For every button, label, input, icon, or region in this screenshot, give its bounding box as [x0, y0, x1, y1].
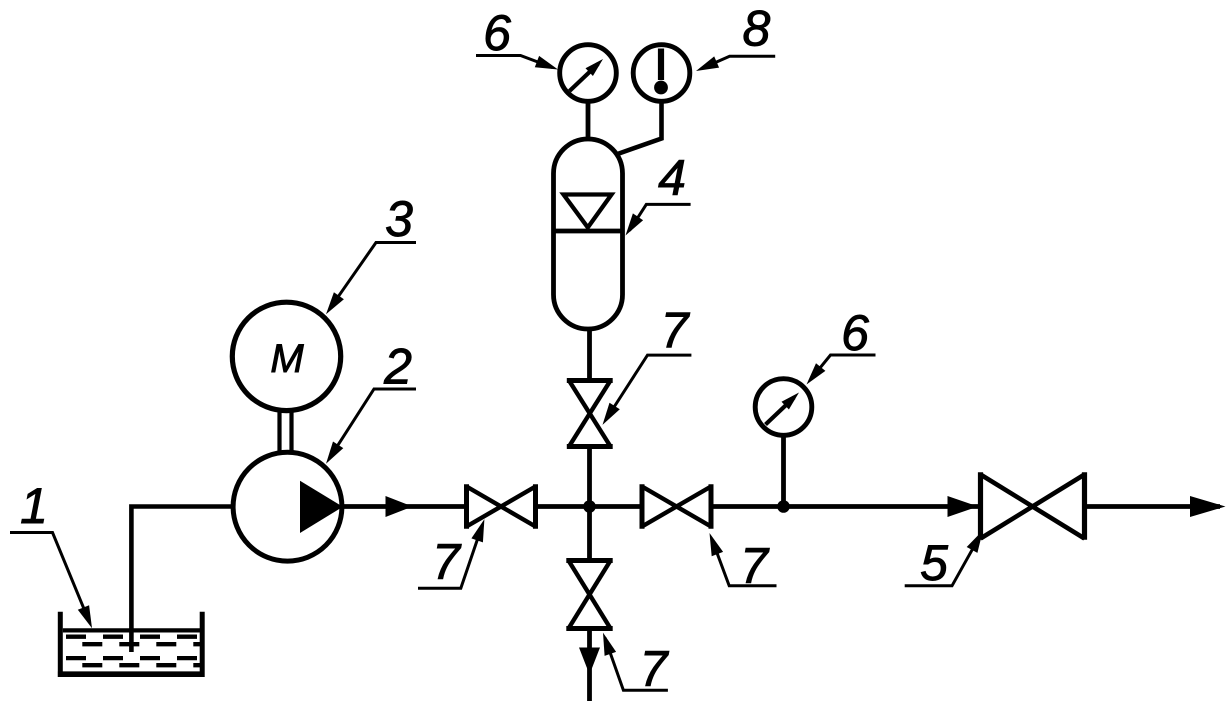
thermometer stem (to accumulator shoulder)	[618, 103, 662, 154]
drain pipe junction to valve 7d	[587, 507, 592, 563]
label 7c	[603, 303, 692, 425]
label 7d	[603, 633, 670, 697]
junction node (cross)	[583, 500, 596, 513]
accumulator 4 (capsule with gas charge)	[554, 139, 623, 329]
valve 7d (vertical bowtie drain)	[566, 561, 612, 629]
pipe valve 7b to valve 5 through gauge tap	[711, 504, 980, 509]
label 6 right	[807, 305, 876, 385]
pressure gauge 6 right (circle with diagonal arrow)	[755, 379, 812, 436]
outlet arrow	[1190, 496, 1226, 517]
svg-text:6: 6	[483, 5, 511, 61]
label 8	[696, 1, 775, 72]
label 6 top	[476, 5, 558, 70]
flow arrow before valve 5	[948, 496, 979, 517]
pressure gauge 6 top (circle with diagonal arrow)	[560, 45, 617, 102]
svg-text:5: 5	[920, 535, 948, 591]
svg-text:7: 7	[432, 534, 462, 590]
svg-text:7: 7	[640, 641, 670, 697]
valve 7a (bowtie on main line)	[467, 484, 536, 528]
pipe valve 7a to valve 7b through cross junction	[536, 504, 643, 509]
gauge stem (accumulator to pressure gauge)	[586, 103, 591, 137]
svg-text:2: 2	[383, 339, 412, 395]
pump 2 (circle with solid triangle)	[233, 452, 343, 561]
valve 7c (vertical bowtie under accumulator)	[567, 381, 613, 447]
thermometer 8 (circle with bulb)	[633, 45, 690, 102]
label 4	[626, 150, 691, 236]
gauge 6 right stem	[781, 435, 786, 507]
svg-text:6: 6	[841, 305, 869, 361]
svg-text:3: 3	[385, 191, 413, 247]
label 2	[326, 339, 416, 464]
svg-text:8: 8	[742, 1, 770, 57]
flow arrow after pump	[386, 496, 413, 517]
riser pipe junction to valve 7c	[587, 447, 592, 507]
svg-text:4: 4	[658, 150, 686, 206]
drain pipe below valve 7d	[587, 629, 592, 702]
label 5	[905, 530, 983, 591]
pipe valve 7c to accumulator	[587, 327, 592, 381]
drain arrow (downward)	[579, 648, 600, 675]
junction node (gauge tap)	[777, 500, 790, 513]
valve 5 (large bowtie)	[981, 472, 1085, 540]
shaft motor to pump (double line)	[280, 411, 292, 453]
svg-text:1: 1	[20, 478, 48, 534]
label 7b	[710, 533, 777, 594]
tank 1 (open reservoir with liquid)	[58, 612, 205, 677]
valve 7b (bowtie on main line)	[642, 484, 711, 528]
label 7a	[418, 519, 484, 590]
label 3	[326, 191, 416, 314]
outlet pipe	[1085, 504, 1221, 509]
svg-text:M: M	[270, 337, 304, 381]
discharge pipe pump to valve 7a	[343, 504, 468, 509]
motor 3 (circle with M)	[232, 302, 340, 410]
svg-text:7: 7	[661, 303, 691, 359]
suction pipe from tank to pump	[131, 507, 233, 653]
label 1	[10, 478, 92, 628]
